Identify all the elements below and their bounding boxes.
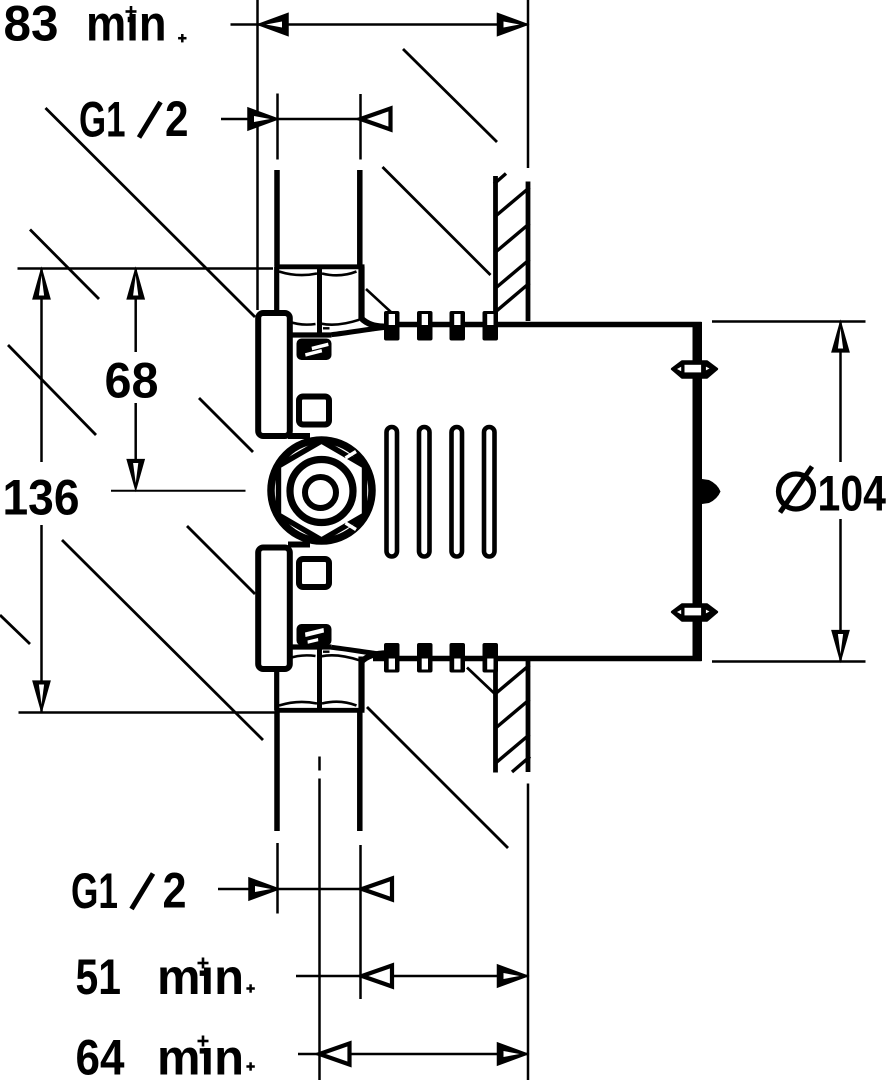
crimp marks bottom row (384, 643, 498, 673)
diagonal B1 (30, 230, 99, 300)
extension line G1/2 bottom left (276, 843, 279, 914)
nut top face arc left (279, 272, 317, 276)
dimension line G1/2 bottom (218, 888, 391, 891)
wall lower left edge (493, 662, 498, 773)
extension line G1/2 top left (276, 94, 279, 160)
arrow 68 top (127, 269, 144, 300)
fixing tab bottom (672, 605, 717, 621)
wall upper right edge (526, 182, 531, 322)
diagonal E1 (8, 345, 96, 435)
wall lower right edge (526, 661, 531, 772)
hatch stub top (494, 174, 506, 185)
diagonal E2 (187, 526, 255, 594)
pipe centre line bottom (318, 757, 321, 771)
arrow 51 right (498, 965, 528, 987)
body top edge (384, 322, 702, 328)
svg-text:83: 83 (4, 0, 59, 52)
arrow G1/2 bottom left (249, 878, 279, 900)
diagonal F (62, 540, 263, 740)
svg-text:mın: mın (157, 1030, 244, 1080)
arrow 51 left (362, 966, 392, 987)
extension line G1/2 bottom right (359, 845, 362, 999)
nut right edge (358, 657, 364, 711)
label dia104 : manual diameter symbol (779, 474, 814, 509)
extension line dia104 top (712, 320, 866, 323)
centre dash near nut outlet (323, 327, 330, 329)
arrow G1/2 top left (248, 108, 278, 130)
svg-text:64: 64 (76, 1030, 125, 1080)
clip lower slashed (297, 624, 332, 646)
nut left edge (274, 267, 279, 311)
plate upper part (258, 313, 290, 436)
svg-text:G1: G1 (71, 863, 118, 919)
svg-text:104: 104 (818, 466, 887, 522)
nut top face arc right (321, 655, 359, 660)
nut left edge (274, 667, 279, 711)
dimension line G1/2 top (221, 118, 391, 121)
arrow G1/2 bottom right (362, 879, 392, 900)
svg-text:G1: G1 (79, 92, 126, 148)
svg-text:mın: mın (86, 0, 167, 52)
leader to first crimp (366, 289, 392, 313)
svg-text:51: 51 (76, 949, 122, 1005)
hatch line l4 partial (512, 757, 530, 773)
diagonal H (367, 707, 508, 848)
shoulder line above clip (292, 332, 332, 337)
svg-text:136: 136 (3, 470, 80, 526)
middle circle (290, 460, 353, 523)
svg-text:68: 68 (105, 353, 159, 409)
hatch line u3 (495, 260, 530, 290)
pipe top right wall (357, 170, 363, 266)
svg-text:2: 2 (165, 91, 189, 147)
body bottom edge (373, 656, 702, 662)
extension line left face (83 min) (256, 0, 259, 310)
spindle bump right (702, 479, 721, 504)
extension line top of nut (136/68) (18, 267, 274, 270)
nut top face arc left (289, 655, 316, 658)
extension line wall face top (83 min) (527, 0, 530, 168)
tolerance plus marks 64 min (198, 1036, 209, 1047)
arrow G1/2 top right (361, 109, 391, 130)
plate lower part (258, 548, 290, 670)
arrow dia104 bottom (832, 631, 849, 662)
diagonal D (383, 167, 491, 275)
boss outer circle (271, 440, 372, 541)
body right edge (693, 322, 703, 661)
nut top edge (275, 264, 365, 269)
nut right edge (358, 267, 364, 321)
extension line dia104 bottom (712, 660, 866, 663)
nut bottom face arc left (279, 702, 317, 706)
funnel lower curve (332, 327, 387, 334)
nut bottom edge (275, 708, 365, 713)
hatch line l1 (495, 665, 530, 695)
diagonal B3 (467, 668, 496, 695)
hatch line l3 (495, 735, 530, 765)
svg-text:2: 2 (163, 863, 187, 919)
arrow 64 right (498, 1043, 528, 1065)
white notch upper right (346, 452, 357, 459)
nut bottom face arc left (289, 322, 316, 325)
white notch lower right (346, 523, 357, 530)
dimension line 64 min (298, 1053, 528, 1056)
funnel upper curve (332, 647, 387, 654)
dimension line 68 upper segment (134, 269, 137, 353)
tolerance plus marks 51 min (198, 958, 209, 969)
extension line bottom of nut (136) (19, 711, 278, 714)
square boss lower (299, 559, 329, 587)
arrow 136 top (33, 269, 50, 300)
arrow 64 left (320, 1044, 350, 1065)
extension line wall face bottom (51/64) (527, 784, 530, 1080)
nut top face arc right (322, 272, 357, 276)
funnel lower curve (361, 653, 386, 662)
dimension line dia104 lower segment (839, 519, 842, 661)
inner circle (305, 477, 336, 508)
diagonal G (0, 615, 30, 644)
pipe bottom left wall (274, 712, 280, 831)
dimension line dia104 upper segment (839, 322, 842, 463)
shoulder line below clip (292, 644, 332, 649)
dimension line 136 lower segment (40, 525, 43, 712)
square boss upper (299, 397, 329, 425)
pipe bottom right wall (357, 712, 363, 831)
dimension line 83 min (231, 23, 528, 26)
arrow 83 left (258, 14, 288, 36)
dimension line 68 lower segment (134, 403, 137, 462)
arrow dia104 top (832, 322, 849, 353)
dimension line 136 upper segment (40, 269, 43, 463)
arrow 68 bottom (127, 460, 144, 491)
fixing tab top (672, 362, 717, 378)
diagonal C (403, 49, 497, 142)
svg-text:mın: mın (157, 949, 244, 1005)
extension line G1/2 top right (359, 94, 362, 160)
nut bottom face arc right (321, 320, 359, 325)
centre dash near nut outlet (323, 651, 330, 653)
arrow 83 right (498, 14, 528, 36)
pipe top left wall (274, 170, 280, 266)
nut bottom face arc right (322, 702, 357, 706)
dimension line 51 min (296, 975, 528, 978)
plate upper connector (288, 433, 310, 439)
clip upper slashed (297, 339, 332, 361)
diagonal A (46, 108, 256, 317)
nut centre line (317, 643, 322, 709)
tolerance plus marks 83 min (126, 6, 137, 17)
hex nut face (279, 441, 365, 540)
centre line of valve (horizontal) (111, 490, 246, 492)
vent slots (387, 427, 495, 557)
hatch line l2 (495, 700, 530, 730)
hatch line u2 (495, 224, 530, 254)
hatch line u4 overflow (484, 283, 530, 322)
plate lower connector (288, 542, 310, 548)
diagonal B2 (199, 398, 253, 452)
hatch line u1 (495, 188, 530, 218)
nut centre line (317, 268, 322, 335)
wall upper left edge (493, 176, 498, 322)
crimp marks top row (384, 311, 498, 341)
arrow 136 bottom (33, 681, 50, 712)
funnel upper curve (361, 318, 386, 327)
